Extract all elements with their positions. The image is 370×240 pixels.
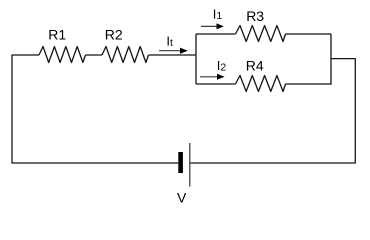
svg-text:It: It bbox=[166, 33, 173, 49]
svg-text:R1: R1 bbox=[48, 26, 66, 42]
svg-text:I2: I2 bbox=[217, 58, 227, 74]
svg-text:R3: R3 bbox=[246, 8, 264, 24]
svg-text:V: V bbox=[177, 190, 187, 206]
svg-text:R4: R4 bbox=[246, 58, 264, 74]
svg-text:R2: R2 bbox=[105, 26, 123, 42]
svg-text:I1: I1 bbox=[213, 7, 223, 23]
